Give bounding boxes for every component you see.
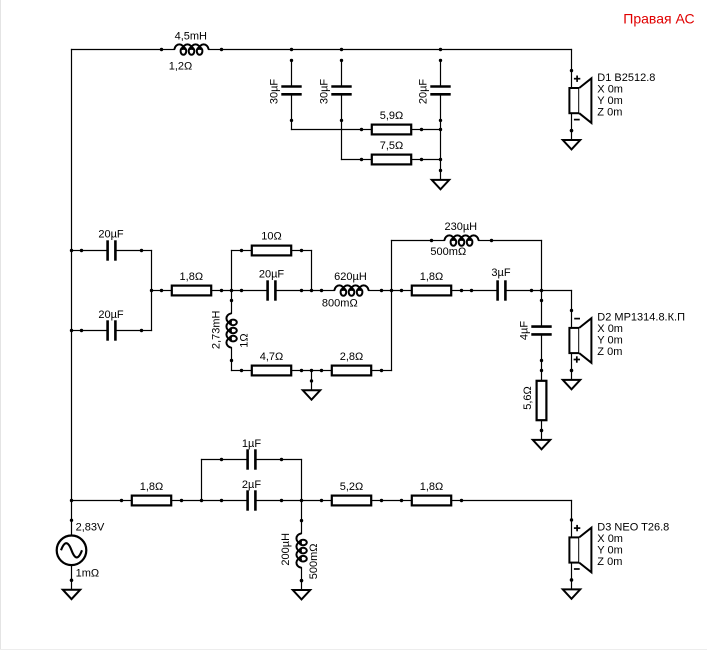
- svg-text:Правая АС: Правая АС: [623, 11, 694, 27]
- svg-text:7,5Ω: 7,5Ω: [380, 140, 404, 152]
- svg-text:30µF: 30µF: [319, 79, 331, 105]
- svg-text:20µF: 20µF: [259, 269, 285, 281]
- svg-text:1,2Ω: 1,2Ω: [169, 61, 193, 73]
- svg-text:D3 NEO T26.8: D3 NEO T26.8: [597, 521, 669, 533]
- svg-text:1µF: 1µF: [242, 438, 261, 450]
- svg-text:1,8Ω: 1,8Ω: [180, 271, 204, 283]
- svg-text:3µF: 3µF: [491, 267, 510, 279]
- svg-text:500mΩ: 500mΩ: [430, 246, 466, 258]
- svg-text:D2 MP1314.8.К.П: D2 MP1314.8.К.П: [597, 312, 685, 324]
- svg-text:4µF: 4µF: [519, 321, 531, 340]
- svg-text:1,8Ω: 1,8Ω: [420, 481, 444, 493]
- svg-text:1,8Ω: 1,8Ω: [140, 481, 164, 493]
- svg-text:5,2Ω: 5,2Ω: [340, 481, 364, 493]
- svg-text:Z 0m: Z 0m: [597, 106, 622, 118]
- svg-text:Z 0m: Z 0m: [597, 346, 622, 358]
- svg-text:10Ω: 10Ω: [261, 231, 281, 243]
- svg-text:X 0m: X 0m: [597, 83, 623, 95]
- svg-text:Z 0m: Z 0m: [597, 556, 622, 568]
- svg-text:500mΩ: 500mΩ: [308, 544, 320, 580]
- svg-text:X 0m: X 0m: [597, 323, 623, 335]
- svg-text:2,83V: 2,83V: [76, 521, 105, 533]
- svg-text:20µF: 20µF: [98, 309, 124, 321]
- svg-text:2,73mH: 2,73mH: [210, 310, 222, 349]
- svg-text:5,6Ω: 5,6Ω: [522, 386, 534, 410]
- svg-text:30µF: 30µF: [268, 79, 280, 105]
- svg-text:X 0m: X 0m: [597, 533, 623, 545]
- svg-text:230µH: 230µH: [444, 221, 477, 233]
- svg-text:4,7Ω: 4,7Ω: [260, 351, 284, 363]
- svg-text:800mΩ: 800mΩ: [322, 297, 358, 309]
- svg-text:1mΩ: 1mΩ: [76, 568, 100, 580]
- svg-text:200µH: 200µH: [280, 533, 292, 566]
- svg-text:20µF: 20µF: [418, 79, 430, 105]
- svg-text:1Ω: 1Ω: [238, 333, 250, 347]
- svg-text:5,9Ω: 5,9Ω: [380, 110, 404, 122]
- svg-text:620µH: 620µH: [334, 271, 367, 283]
- svg-text:D1 B2512.8: D1 B2512.8: [597, 72, 655, 84]
- svg-text:1,8Ω: 1,8Ω: [420, 271, 444, 283]
- svg-text:4,5mH: 4,5mH: [175, 31, 207, 43]
- svg-text:20µF: 20µF: [98, 228, 124, 240]
- svg-text:Y 0m: Y 0m: [597, 335, 622, 347]
- svg-text:2,8Ω: 2,8Ω: [340, 351, 364, 363]
- svg-text:2µF: 2µF: [242, 479, 261, 491]
- svg-text:Y 0m: Y 0m: [597, 544, 622, 556]
- svg-text:Y 0m: Y 0m: [597, 95, 622, 107]
